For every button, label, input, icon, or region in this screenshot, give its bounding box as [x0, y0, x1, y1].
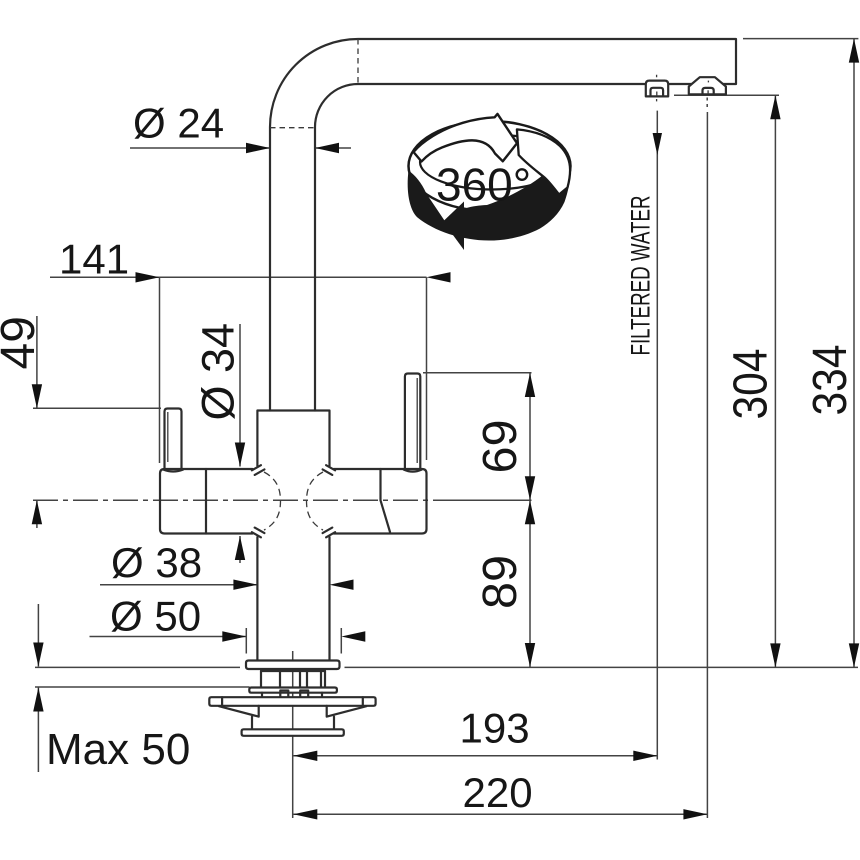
svg-text:Ø 38: Ø 38	[111, 539, 202, 586]
svg-text:Ø 50: Ø 50	[110, 593, 201, 640]
svg-text:304: 304	[725, 349, 778, 420]
svg-text:141: 141	[59, 236, 129, 283]
svg-text:193: 193	[460, 705, 530, 752]
svg-text:334: 334	[804, 345, 857, 416]
svg-text:Max 50: Max 50	[46, 725, 190, 774]
svg-text:89: 89	[474, 555, 527, 609]
svg-text:220: 220	[463, 769, 533, 816]
svg-text:Ø 34: Ø 34	[193, 323, 244, 421]
svg-text:FILTERED WATER: FILTERED WATER	[626, 196, 656, 356]
svg-text:Ø 24: Ø 24	[133, 100, 224, 147]
svg-text:69: 69	[474, 420, 527, 474]
svg-text:49: 49	[0, 316, 45, 369]
svg-text:360°: 360°	[436, 159, 531, 211]
